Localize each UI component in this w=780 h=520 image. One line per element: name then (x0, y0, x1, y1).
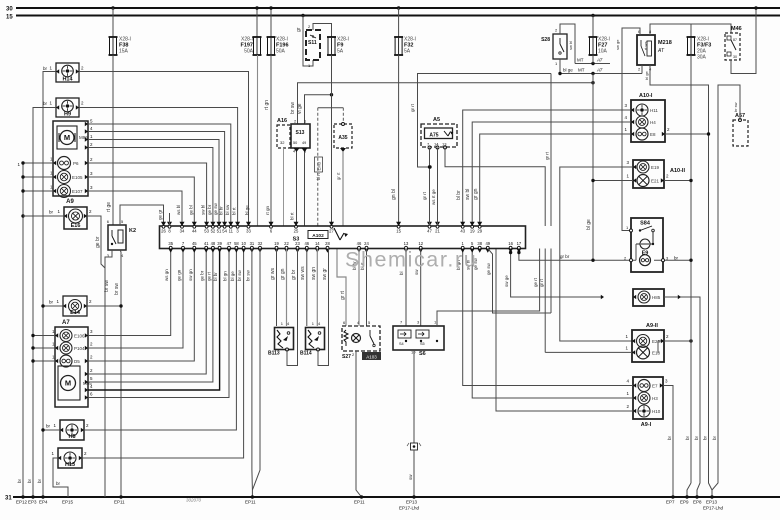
svg-text:10: 10 (241, 241, 246, 246)
svg-text:sw ws: sw ws (300, 266, 306, 280)
wire M46 to bus 30 (731, 6, 758, 73)
svg-text:ge gr: ge gr (158, 209, 163, 220)
wire E19 left and down to A9-II E20 (560, 167, 633, 341)
label br sw b2 (245, 269, 250, 281)
svg-text:br sw: br sw (114, 283, 120, 295)
unit A10-I (631, 93, 665, 142)
svg-text:br sw: br sw (290, 102, 296, 114)
svg-text:50A: 50A (276, 49, 286, 55)
svg-text:bl sw: bl sw (225, 204, 230, 215)
wire M96 pin 2 to pin 52 (85, 142, 213, 226)
label br sw b1 (237, 269, 242, 281)
label ge bl (188, 205, 193, 215)
svg-text:bl ge: bl ge (244, 205, 249, 215)
label bl sw (225, 204, 230, 215)
svg-text:ge rt: ge rt (206, 271, 211, 281)
svg-text:EM3: EM3 (317, 161, 322, 170)
svg-text:S28: S28 (541, 37, 550, 43)
svg-text:A16: A16 (277, 118, 287, 124)
wire A5 pin 14 to pin 21 (431, 148, 438, 227)
svg-text:45: 45 (192, 241, 197, 246)
svg-text:br: br (56, 481, 61, 486)
svg-text:rt gn: rt gn (264, 100, 270, 110)
svg-text:gr gn: gr gn (473, 188, 479, 200)
svg-text:gr br: gr br (560, 254, 570, 259)
svg-text:M: M (65, 379, 71, 388)
svg-text:47: 47 (427, 229, 432, 234)
svg-text:16: 16 (508, 241, 513, 246)
wire bl ge down to S84 line (586, 74, 593, 261)
fuse F27 (589, 37, 598, 55)
wire H8 to pin 58 (84, 249, 236, 431)
svg-text:br sw: br sw (104, 280, 110, 292)
wire S6 pin 1 up (437, 249, 540, 327)
svg-text:15: 15 (6, 15, 13, 21)
svg-text:58: 58 (234, 241, 239, 246)
svg-text:27: 27 (329, 229, 334, 234)
svg-text:14: 14 (434, 142, 439, 147)
svg-text:A102: A102 (312, 233, 324, 239)
ground EP4 (37, 478, 48, 504)
svg-text:rt gn: rt gn (265, 205, 270, 215)
svg-text:50A: 50A (244, 49, 254, 55)
svg-text:br sw: br sw (237, 269, 242, 281)
label bl ge (244, 205, 249, 215)
wire E16 left to EP12 rail (23, 210, 64, 217)
wire ign drop to pin49 net (545, 74, 552, 314)
svg-text:gr rt: gr rt (422, 191, 427, 200)
indicator lamp H14 (49, 63, 84, 83)
svg-text:ge sw: ge sw (486, 262, 491, 275)
wire H3 from pin 5 (472, 249, 633, 399)
wire pin 19 to B113 (270, 249, 277, 327)
wire F197 down (257, 55, 259, 226)
wire A10-II pin 2 right (661, 174, 693, 183)
svg-text:12: 12 (418, 241, 423, 246)
label ge br b (200, 270, 205, 281)
svg-text:br: br (667, 435, 672, 440)
svg-text:50: 50 (293, 141, 297, 145)
watermark (345, 248, 477, 272)
wire M95 pin to pin 48 (85, 249, 213, 385)
unit A57 (733, 113, 748, 146)
label ws gn (164, 269, 169, 281)
svg-text:br: br (43, 66, 48, 71)
wire S13 pin 3 down (302, 148, 308, 226)
svg-text:M46: M46 (731, 26, 742, 32)
wire pin 31 to EP11 (251, 249, 254, 499)
svg-text:S11: S11 (308, 40, 317, 46)
svg-text:A103: A103 (366, 355, 377, 360)
svg-text:EP8: EP8 (693, 500, 702, 505)
svg-text:32: 32 (280, 140, 285, 145)
svg-text:ge bl: ge bl (188, 205, 193, 215)
wire F32 to pin 15 (391, 55, 399, 226)
svg-text:24: 24 (364, 241, 369, 246)
svg-text:A75: A75 (429, 133, 438, 139)
lamp E8 (624, 127, 656, 140)
svg-text:E14: E14 (70, 310, 81, 316)
svg-text:5A: 5A (404, 49, 411, 55)
label F3/F3 (697, 37, 711, 61)
svg-text:E106: E106 (74, 334, 85, 339)
svg-text:K2: K2 (129, 228, 136, 234)
svg-text:bl ge: bl ge (230, 271, 235, 281)
wire H13 left to EP15 (53, 458, 68, 497)
lamp E18 (625, 346, 660, 359)
svg-text:sw ge: sw ge (615, 39, 620, 50)
feed line F9 to S13 pin 1 (297, 93, 333, 124)
wire B114 to pin 28 (318, 249, 329, 366)
wire H4 to pin 19 (465, 122, 631, 226)
svg-text:H11: H11 (650, 108, 658, 113)
fuse F32 (394, 37, 403, 55)
svg-text:H10: H10 (652, 409, 661, 414)
svg-text:ws gn: ws gn (164, 269, 169, 281)
svg-text:bl rt: bl rt (290, 212, 295, 220)
lamp H11 (624, 103, 658, 116)
wire M218 pin 6 to S84 pin 1 (615, 28, 640, 231)
sensor P104 (60, 342, 85, 354)
junction dots A7 left on EP3 rail (31, 329, 58, 363)
svg-text:sw bl: sw bl (465, 189, 471, 200)
svg-text:5A: 5A (337, 49, 344, 55)
lamp H10 (626, 404, 660, 417)
wire A5 pin 13 right (445, 148, 545, 227)
svg-text:sw gn: sw gn (188, 269, 193, 281)
wire E107 pin 3 to pin 34 (85, 185, 182, 226)
unit A16 (277, 118, 290, 226)
wire E21 left to bl ge (591, 179, 633, 182)
label F197 (240, 37, 253, 55)
switch unit S27 A103 (342, 320, 381, 360)
lamp E20 (625, 334, 660, 348)
svg-text:28: 28 (325, 241, 330, 246)
svg-text:33: 33 (246, 229, 251, 234)
wire E14 right to br sw rail (87, 304, 123, 307)
svg-text:29: 29 (477, 229, 482, 234)
wire A57 up left down (712, 85, 740, 490)
svg-text:E7: E7 (652, 384, 658, 389)
svg-text:35: 35 (168, 241, 173, 246)
svg-text:H14: H14 (62, 77, 73, 83)
svg-text:gn bl: gn bl (391, 189, 397, 200)
label bl br (219, 206, 224, 215)
svg-text:32: 32 (258, 241, 263, 246)
svg-text:br sw: br sw (733, 102, 738, 112)
svg-text:S5: S5 (420, 342, 425, 346)
svg-text:br: br (703, 435, 708, 440)
svg-text:br: br (49, 210, 54, 215)
svg-text:22: 22 (284, 241, 289, 246)
ground EP11 left (114, 495, 125, 504)
svg-text:bl: bl (399, 271, 404, 275)
label F196 (276, 37, 289, 55)
lamp E9 lower (640, 255, 651, 266)
svg-text:34: 34 (180, 229, 185, 234)
svg-text:A10-II: A10-II (670, 168, 685, 174)
wire M218 pin 2 to ign line (641, 65, 643, 74)
svg-text:E107: E107 (72, 189, 83, 194)
svg-text:43: 43 (460, 229, 465, 234)
sensor B113 (268, 321, 294, 357)
svg-text:H3: H3 (652, 396, 658, 401)
switch M46 (725, 26, 742, 60)
label F9 (337, 37, 349, 55)
svg-text:ge br: ge br (200, 270, 205, 281)
label rt ws top (265, 205, 270, 215)
svg-text:gr: gr (296, 27, 302, 32)
wire E106 to pin 35 (85, 249, 171, 338)
wire pin 46b to S27 (352, 249, 359, 327)
lamp H85 (633, 289, 664, 306)
label bl br b (213, 272, 218, 281)
label ge sw pin 38 (473, 257, 478, 270)
svg-text:sw: sw (408, 474, 413, 480)
svg-text:A35: A35 (338, 135, 347, 141)
motor M95 (58, 366, 92, 400)
wire F32 from bus 30 (398, 8, 400, 37)
svg-text:H9: H9 (64, 112, 71, 118)
dashed wire into A35 (342, 108, 344, 124)
svg-text:gr gn: gr gn (280, 268, 286, 280)
lamp H4 (624, 115, 656, 128)
line MT to F27 (575, 58, 610, 66)
label bl gn pin 1 (456, 260, 461, 270)
svg-text:S3: S3 (293, 237, 300, 243)
svg-text:30A: 30A (697, 55, 707, 61)
wire E16 right down (87, 216, 105, 268)
gauge D5 (60, 355, 80, 367)
svg-text:302070: 302070 (186, 498, 202, 503)
wire pin 46 to B114 (300, 249, 307, 327)
lamp E9 upper (636, 239, 654, 260)
svg-text:bl br: bl br (456, 190, 462, 200)
wire M95 pin to pin 47 (85, 249, 229, 400)
svg-text:30: 30 (733, 55, 737, 59)
svg-text:sw ge: sw ge (504, 275, 509, 287)
wire gr br label (560, 254, 570, 259)
lamp E105 (58, 171, 84, 184)
wire E18 left from A5 pin 13 (539, 249, 632, 353)
svg-text:ge br: ge br (207, 204, 212, 215)
wire F196 down to pin 6 (264, 55, 271, 226)
svg-text:E21: E21 (651, 179, 660, 184)
wire pin 24 to S27 (360, 249, 367, 327)
svg-text:A9-I: A9-I (641, 422, 652, 428)
svg-text:A9-II: A9-II (646, 323, 658, 329)
svg-text:EP11: EP11 (245, 500, 256, 505)
fuse F197 (253, 37, 262, 55)
svg-text:M218: M218 (658, 40, 672, 46)
svg-text:52: 52 (211, 229, 216, 234)
svg-text:ws rt ge: ws rt ge (431, 189, 436, 205)
svg-text:EP9: EP9 (680, 500, 689, 505)
wire A9-II right (658, 334, 693, 353)
svg-text:P6: P6 (73, 161, 79, 166)
wire A9-I pin 3 to EP7 (660, 379, 675, 499)
document number (186, 498, 202, 503)
ground EP7 label (666, 500, 675, 505)
label ws bl (176, 205, 181, 215)
wire bus 15 to S11 (296, 16, 313, 67)
ground EP15 (62, 500, 74, 505)
ground EP3 (27, 478, 37, 504)
indicator lamp H8 (53, 420, 89, 440)
svg-text:sw bl: sw bl (201, 205, 206, 215)
svg-text:B114: B114 (300, 351, 312, 357)
svg-text:49: 49 (485, 241, 490, 246)
svg-text:31: 31 (5, 496, 12, 502)
svg-text:13: 13 (404, 241, 409, 246)
svg-text:E8: E8 (650, 132, 656, 137)
svg-text:10A: 10A (598, 49, 608, 55)
wire F9 to pin 27 (331, 55, 333, 226)
junction on bus 30 for F32 (397, 6, 400, 9)
svg-text:bl br: bl br (213, 272, 218, 281)
wire H85 left from pin 16 (504, 251, 636, 299)
unit A35 (334, 123, 352, 153)
svg-text:E19: E19 (651, 165, 660, 170)
svg-text:ge rt: ge rt (533, 277, 538, 287)
svg-text:sw bl: sw bl (568, 41, 573, 50)
svg-text:bl gn: bl gn (223, 271, 228, 281)
svg-text:gr br: gr br (291, 269, 297, 280)
svg-text:br: br (46, 424, 51, 429)
svg-text:48: 48 (211, 241, 216, 246)
svg-text:S6: S6 (419, 351, 426, 357)
feed line to S13 pin 2 (290, 81, 595, 124)
lamp E7 (626, 379, 658, 392)
wire pin 13 to S6 (399, 249, 406, 327)
wire H13 to pin 10 (82, 249, 244, 459)
svg-text:M: M (64, 133, 70, 142)
svg-text:rt ge: rt ge (106, 202, 112, 212)
unit A5 (421, 117, 457, 149)
svg-text:sw gr: sw gr (322, 268, 328, 280)
svg-text:54: 54 (222, 229, 227, 234)
svg-text:EP11: EP11 (114, 500, 125, 505)
switch unit S84 (631, 218, 663, 272)
svg-text:15A: 15A (119, 49, 129, 55)
wire F38 to K2 pin 6 (106, 55, 113, 225)
wire F197 from bus 30 (255, 6, 258, 37)
svg-text:38: 38 (477, 241, 482, 246)
svg-text:EP11: EP11 (354, 500, 365, 505)
fuse F3/F3 (687, 37, 696, 55)
svg-text:br: br (27, 478, 32, 483)
lamp E16 (57, 207, 92, 229)
ground EP8 label (693, 495, 702, 504)
label ge rt b (206, 271, 211, 281)
junction on bus 30 for F38 (111, 6, 114, 9)
lamp H3 (626, 391, 658, 404)
wire S11 to F9 (313, 24, 332, 38)
svg-text:S27: S27 (342, 354, 351, 360)
sensor B114 (300, 321, 325, 357)
svg-text:EP13: EP13 (406, 500, 418, 505)
ground EP12 (16, 478, 28, 504)
svg-text:26: 26 (161, 229, 166, 234)
svg-text:MT: MT (577, 58, 584, 63)
wire H8 left to EP4 rail (41, 424, 60, 432)
svg-text:gr ws: gr ws (270, 268, 276, 280)
unit A9-II (632, 323, 664, 362)
svg-text:S84: S84 (640, 221, 651, 227)
label sw bl pin 5 (466, 260, 471, 270)
svg-text:S13: S13 (296, 130, 305, 136)
svg-text:25: 25 (294, 229, 299, 234)
svg-text:bl rt: bl rt (316, 172, 321, 180)
svg-text:B113: B113 (268, 351, 280, 357)
switch S84 contact (626, 225, 654, 244)
svg-text:bl ge: bl ge (644, 71, 649, 80)
wire H11 to pin 43 (456, 110, 631, 226)
svg-text:EP7: EP7 (666, 500, 675, 505)
relay K2 (107, 219, 136, 258)
svg-text:br: br (685, 435, 690, 440)
svg-text:30: 30 (6, 7, 13, 13)
svg-text:51: 51 (217, 229, 222, 234)
svg-text:rt ws: rt ws (643, 42, 648, 50)
svg-text:47: 47 (227, 241, 232, 246)
wire P6 pin 2 to pin 53 (85, 157, 207, 226)
svg-text:br: br (37, 478, 42, 483)
svg-text:gr rt: gr rt (545, 151, 550, 160)
svg-text:EP17-Lhd: EP17-Lhd (703, 506, 724, 511)
wire S84 line (517, 251, 693, 262)
svg-text:H4: H4 (650, 120, 656, 125)
svg-text:S4: S4 (399, 342, 404, 346)
switch unit S13 (291, 119, 310, 154)
fuse F196 (267, 37, 276, 55)
ground EP13 right (703, 435, 724, 510)
wire E14 left to EP4 rail (41, 300, 63, 308)
wire F3 down right side (690, 55, 692, 262)
svg-text:br: br (694, 435, 699, 440)
wire M95 pin to pin 41 (85, 249, 206, 377)
svg-text:EP13: EP13 (706, 500, 718, 505)
node bus 31 (5, 496, 780, 502)
wire M218 pin 4 down right (644, 65, 712, 497)
label sw gn (188, 269, 193, 281)
label bl gn b (223, 271, 228, 281)
unit A9 box (53, 121, 88, 205)
wire H9 to pin 3 (79, 108, 238, 227)
svg-text:P104: P104 (74, 346, 85, 351)
wire S13 pin 4 to pin 25 (294, 148, 300, 226)
wire M96 pin 5 to pin 11 (85, 119, 231, 227)
wire S27 pin 2 to EP11 (354, 351, 365, 505)
svg-text:ge gn: ge gn (177, 269, 182, 281)
svg-text:sw gn: sw gn (311, 267, 317, 280)
svg-text:A7: A7 (62, 320, 70, 326)
svg-text:11: 11 (229, 229, 234, 234)
svg-text:87: 87 (733, 38, 737, 42)
switch S11 (306, 24, 320, 68)
junction on bus 15 for S11 (301, 14, 304, 17)
wire pin 14 to B114 (311, 249, 317, 327)
svg-text:14: 14 (315, 241, 320, 246)
unit A10-II (633, 160, 685, 188)
wire F38 from bus 30 (112, 8, 114, 37)
label ge gr top (158, 209, 163, 220)
svg-text:bl ge: bl ge (563, 68, 573, 73)
wire E8 to pin 29 (473, 134, 631, 226)
relay M218 (637, 29, 672, 72)
motor M96 (57, 126, 88, 149)
ground EP11 mid (245, 500, 256, 505)
